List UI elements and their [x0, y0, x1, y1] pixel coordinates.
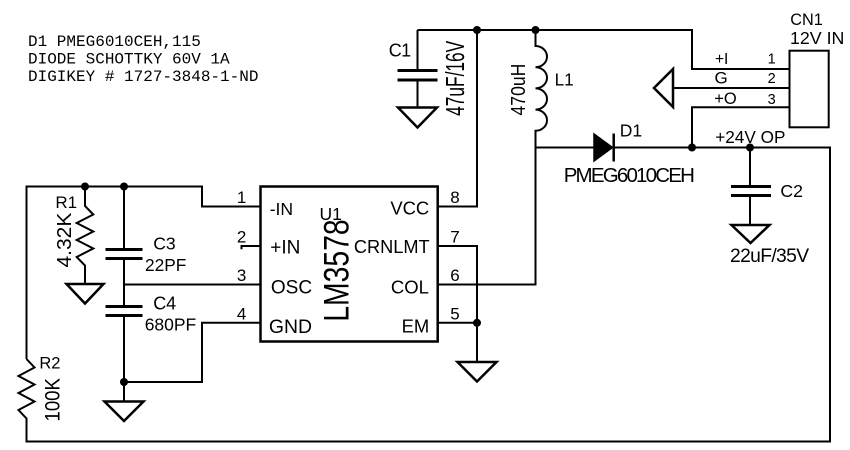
svg-text:12V IN: 12V IN: [790, 28, 844, 48]
svg-text:CN1: CN1: [790, 11, 823, 29]
svg-text:+IN: +IN: [270, 238, 300, 259]
svg-text:DIGIKEY # 1727-3848-1-ND: DIGIKEY # 1727-3848-1-ND: [28, 68, 258, 86]
wire D1 anode branch: [536, 147, 595, 149]
input arrow: [654, 69, 673, 107]
svg-text:OSC: OSC: [271, 278, 312, 299]
node junction top L1: [532, 26, 540, 34]
svg-text:-IN: -IN: [270, 199, 293, 219]
svg-text:680PF: 680PF: [145, 314, 197, 334]
svg-text:D1: D1: [620, 120, 642, 140]
capacitor C4: [106, 307, 143, 383]
connector CN1: [790, 51, 829, 128]
svg-text:R2: R2: [39, 355, 60, 373]
svg-text:G: G: [715, 68, 728, 87]
svg-text:8: 8: [450, 188, 459, 207]
inductor L1: [438, 30, 547, 285]
svg-text:470uH: 470uH: [507, 64, 529, 116]
svg-text:4: 4: [237, 304, 246, 323]
svg-text:+O: +O: [714, 90, 737, 108]
svg-text:D1 PMEG6010CEH,115: D1 PMEG6010CEH,115: [28, 33, 201, 51]
svg-text:EM: EM: [402, 316, 430, 337]
ground C2: [732, 225, 770, 243]
wire GND pin4: [124, 323, 261, 382]
ground EM: [458, 362, 497, 382]
svg-text:L1: L1: [555, 70, 574, 90]
capacitor C1: [398, 30, 438, 107]
wire pin1 -IN feed: [27, 187, 261, 360]
wire OSC: [123, 260, 125, 305]
note D1 part text block: [28, 33, 258, 86]
svg-text:DIODE SCHOTTKY 60V 1A: DIODE SCHOTTKY 60V 1A: [28, 51, 230, 69]
node junction R1: [81, 183, 89, 191]
svg-text:C3: C3: [153, 234, 176, 254]
node junction C3 column: [120, 183, 128, 191]
diode D1: [594, 134, 614, 162]
svg-text:R1: R1: [55, 193, 77, 212]
svg-text:5: 5: [450, 304, 459, 323]
capacitor C3: [106, 187, 143, 259]
IC U1 LM3578: [261, 187, 438, 342]
svg-text:7: 7: [450, 228, 459, 247]
svg-text:3: 3: [237, 266, 246, 285]
wire CN1 pin2 G: [673, 87, 790, 89]
svg-text:GND: GND: [269, 316, 312, 338]
resistor R1: [77, 187, 94, 285]
svg-text:22uF/35V: 22uF/35V: [730, 246, 809, 267]
svg-text:COL: COL: [391, 277, 429, 298]
node junction C4 gnd: [120, 378, 128, 386]
node junction top VCC: [473, 26, 481, 34]
svg-text:CRNLMT: CRNLMT: [354, 237, 430, 257]
node C2 junction: [746, 144, 754, 152]
node +O junction: [688, 144, 696, 152]
svg-text:100K: 100K: [42, 378, 65, 421]
svg-text:3: 3: [768, 92, 776, 108]
svg-text:6: 6: [450, 266, 459, 285]
svg-text:+I: +I: [715, 51, 728, 68]
svg-text:LM3578: LM3578: [316, 219, 356, 321]
svg-text:22PF: 22PF: [145, 255, 186, 275]
pin2 stub +IN: [242, 245, 261, 249]
wire +24V rail: [27, 148, 831, 442]
node junction EM: [473, 319, 481, 327]
svg-text:C1: C1: [389, 41, 411, 61]
ground C1: [398, 108, 437, 128]
svg-text:VCC: VCC: [390, 198, 429, 219]
svg-text:2: 2: [768, 71, 776, 87]
svg-text:C4: C4: [153, 293, 176, 313]
resistor R2: [19, 359, 35, 420]
svg-text:2: 2: [237, 228, 246, 247]
svg-text:C2: C2: [780, 181, 803, 201]
svg-text:+24V OP: +24V OP: [715, 127, 785, 147]
capacitor C2: [731, 148, 771, 226]
svg-text:4.32K: 4.32K: [53, 212, 75, 267]
svg-text:1: 1: [768, 52, 776, 68]
wire CN1 pin3 +O: [692, 107, 790, 147]
ground C4: [105, 382, 144, 421]
svg-text:PMEG6010CEH: PMEG6010CEH: [564, 164, 694, 187]
wire CRNLMT to EM: [438, 246, 477, 323]
ground R1: [67, 284, 104, 304]
wire VCC net: [438, 30, 477, 207]
svg-text:1: 1: [237, 188, 246, 207]
svg-text:47uF/16V: 47uF/16V: [440, 41, 469, 116]
wire top rail to CN1 pin1: [418, 30, 790, 69]
wire EM pin5: [438, 323, 477, 362]
